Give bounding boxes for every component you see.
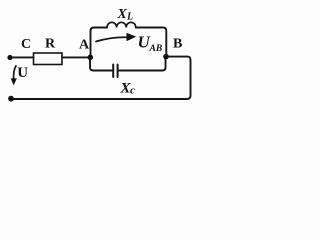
node A dot: [88, 55, 94, 61]
inductor XL coil: [107, 22, 136, 27]
wire: left terminal to resistor: [10, 56, 34, 58]
wire: resistor to node A: [62, 56, 90, 58]
capacitor Xc plates: [112, 65, 114, 78]
wire: coil to top-right corner, down to node B: [136, 28, 167, 57]
svg-text:B: B: [173, 37, 182, 52]
svg-text:L: L: [126, 12, 133, 23]
svg-text:X: X: [117, 7, 128, 22]
node dot: bottom-left terminal: [8, 96, 14, 102]
node dot: left terminal: [7, 55, 12, 60]
source arrow U shaft: [14, 66, 16, 79]
svg-text:c: c: [130, 85, 135, 97]
voltage arrow UAB shaft: [96, 37, 127, 41]
arrowhead UAB: [127, 33, 137, 41]
wire: node A down to capacitor branch: [90, 57, 112, 70]
arrowhead U (down): [11, 78, 17, 85]
wire: node A up to top branch: [91, 28, 108, 58]
svg-text:A: A: [79, 38, 90, 53]
svg-text:R: R: [45, 37, 56, 52]
wire: capacitor to node B riser: [119, 57, 166, 71]
svg-text:U: U: [17, 65, 28, 81]
wire: node B right then down to bottom rail: [11, 57, 191, 99]
svg-text:AB: AB: [149, 44, 163, 54]
node B dot: [163, 54, 169, 60]
svg-text:C: C: [21, 37, 31, 52]
resistor R: [34, 53, 63, 65]
